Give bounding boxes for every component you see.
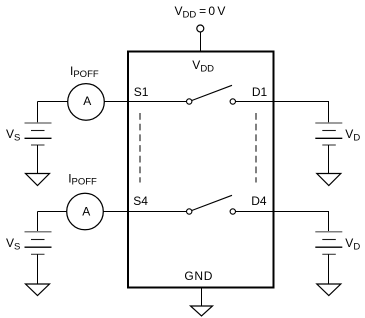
IC body bbox=[128, 52, 274, 288]
switch SW4 bbox=[187, 195, 236, 214]
wire ammeter A1 left bbox=[38, 101, 69, 103]
wire switch to D4 bbox=[236, 211, 274, 213]
ground (VD1) bbox=[317, 174, 341, 186]
svg-text:GND: GND bbox=[184, 269, 213, 283]
wire down to battery VS1 bbox=[37, 102, 39, 124]
wire ammeter A1 to pin S1 bbox=[104, 101, 128, 103]
ground (GND) bbox=[191, 306, 213, 316]
svg-text:S1: S1 bbox=[134, 85, 149, 99]
svg-text:A: A bbox=[82, 204, 90, 218]
battery VS1 bbox=[25, 123, 52, 145]
wire battery VS4 to ground bbox=[37, 254, 39, 284]
wire switch to D1 bbox=[236, 101, 274, 103]
VDD terminal bbox=[197, 25, 204, 32]
svg-text:S4: S4 bbox=[133, 194, 148, 208]
battery VD4 bbox=[315, 232, 342, 255]
wire S1 to switch bbox=[128, 101, 187, 103]
svg-text:D4: D4 bbox=[251, 194, 267, 208]
svg-text:D1: D1 bbox=[252, 85, 268, 99]
ground (VS1) bbox=[26, 174, 50, 186]
ammeter A4 bbox=[67, 193, 104, 230]
wire ammeter A4 left bbox=[38, 211, 68, 213]
ground (VS4) bbox=[26, 284, 50, 296]
wire battery VD1 to ground bbox=[328, 145, 330, 174]
wire D4 to battery VD4 bbox=[274, 212, 329, 232]
switch SW1 bbox=[187, 85, 236, 104]
wire VDD terminal to IC bbox=[200, 32, 202, 51]
wire battery VD4 to ground bbox=[328, 254, 330, 284]
battery VS4 bbox=[25, 232, 52, 255]
wire battery VS1 to ground bbox=[37, 145, 39, 174]
svg-text:VDD = 0 V: VDD = 0 V bbox=[175, 4, 226, 20]
dashed line S1 to S4 bbox=[139, 113, 141, 183]
wire D1 to battery VD1 bbox=[274, 102, 329, 124]
wire ammeter A4 to pin S4 bbox=[103, 211, 128, 213]
ammeter A1 bbox=[68, 84, 105, 121]
battery VD1 bbox=[315, 123, 342, 145]
wire GND to ground bbox=[201, 288, 203, 306]
svg-text:A: A bbox=[83, 94, 91, 108]
ground (VD4) bbox=[317, 284, 341, 296]
dashed line D1 to D4 bbox=[255, 113, 257, 183]
wire S4 to switch bbox=[128, 211, 187, 213]
wire down to battery VS4 bbox=[37, 212, 39, 232]
